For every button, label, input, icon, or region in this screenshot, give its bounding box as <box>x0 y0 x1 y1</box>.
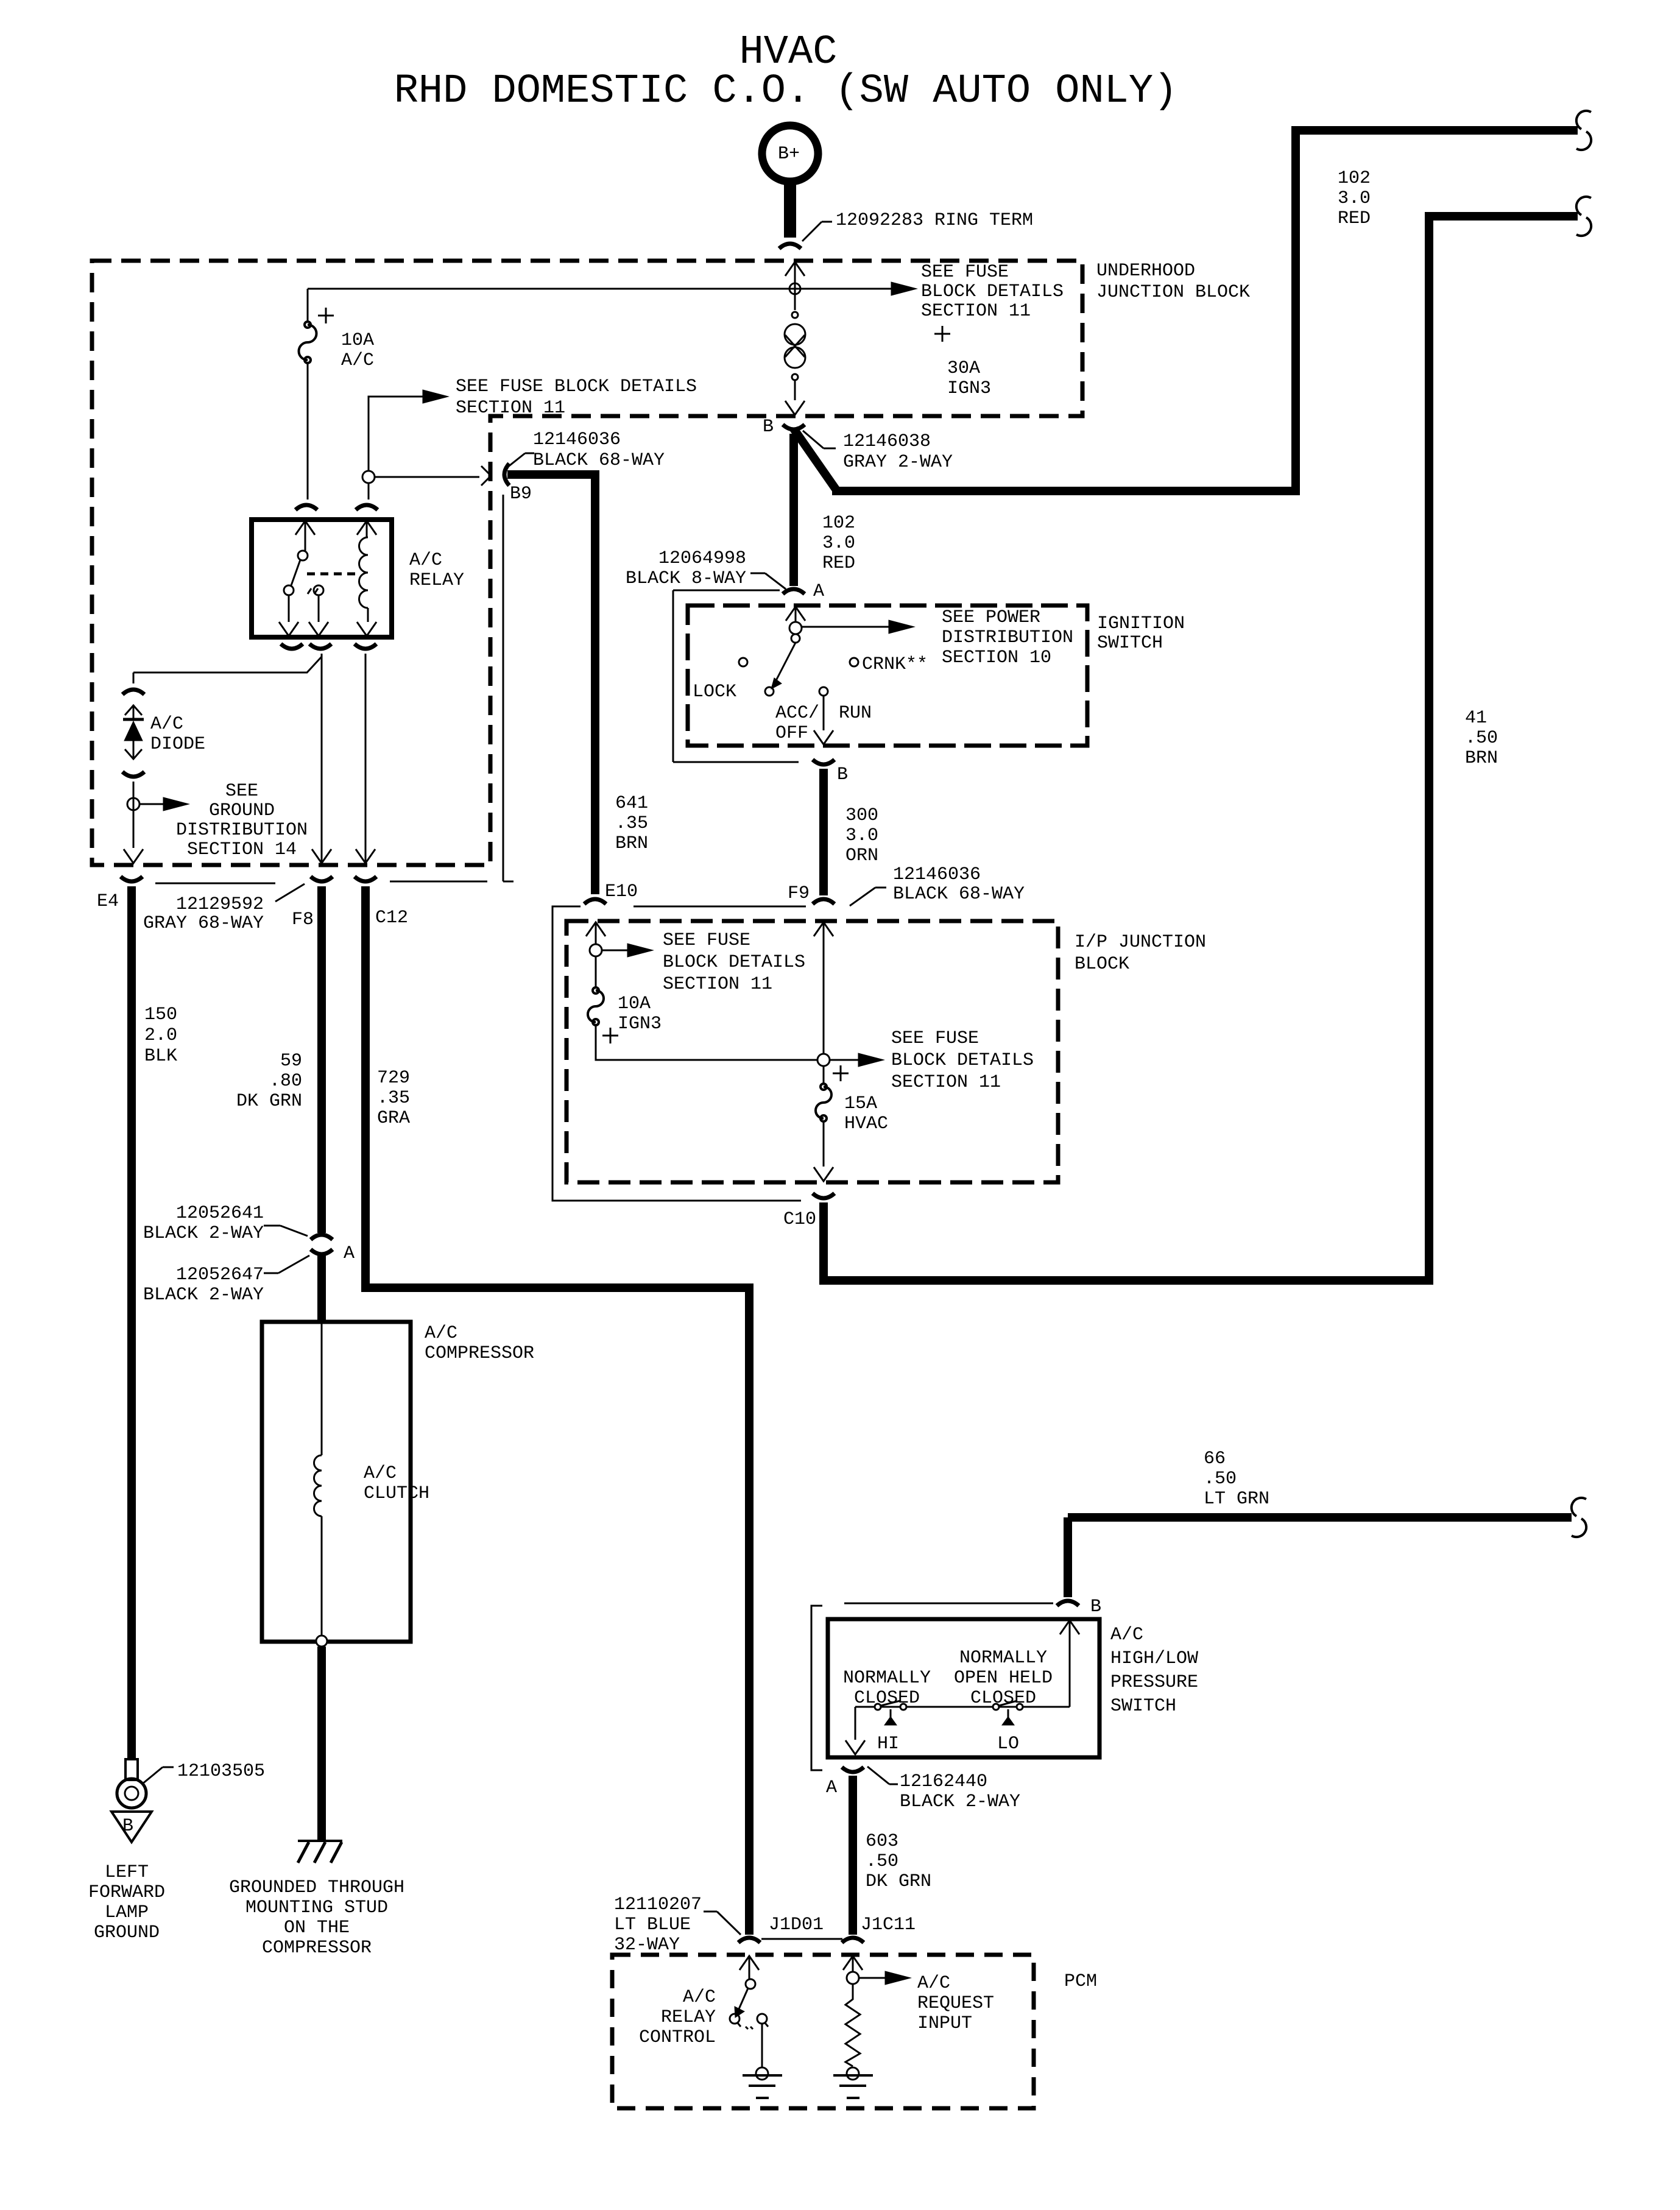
wire fuse 10A to relay pin <box>307 363 309 500</box>
node compressor case <box>316 1636 327 1647</box>
connector C10 arc <box>813 1193 835 1198</box>
svg-text:RHD DOMESTIC C.O. (SW AUTO ONL: RHD DOMESTIC C.O. (SW AUTO ONLY) <box>394 68 1178 115</box>
label 12052647 BLACK 2-WAY <box>143 1255 309 1305</box>
svg-text:LAMP: LAMP <box>105 1902 149 1923</box>
svg-text:12092283 RING TERM: 12092283 RING TERM <box>836 210 1033 231</box>
chassis ground (mounting stud) <box>298 1841 342 1863</box>
svg-text:SECTION 11: SECTION 11 <box>921 301 1031 322</box>
svg-text:HI: HI <box>877 1734 899 1754</box>
label 603 .50 DK GRN <box>866 1831 931 1892</box>
svg-text:ACC/: ACC/ <box>775 703 819 724</box>
svg-text:DK GRN: DK GRN <box>866 1871 931 1892</box>
svg-text:C12: C12 <box>375 908 408 928</box>
bracket 8-way connector <box>673 590 799 762</box>
svg-text:CONTROL: CONTROL <box>639 2027 716 2048</box>
svg-text:A: A <box>826 1778 837 1798</box>
wire junction down to relay pin 2 <box>368 483 370 500</box>
node ground distribution tap <box>127 798 139 810</box>
relay switch pivot <box>298 551 308 560</box>
arrow to ground distribution <box>139 797 189 811</box>
label B (ignition) <box>837 764 848 785</box>
pressure switch pin A lead + arrow <box>845 1707 865 1754</box>
label C10 <box>783 1209 816 1230</box>
relay pin top 1 arrow + lead <box>295 521 315 551</box>
svg-text:REQUEST: REQUEST <box>917 1993 994 2014</box>
svg-text:BLACK 2-WAY: BLACK 2-WAY <box>900 1792 1020 1812</box>
svg-text:SWITCH: SWITCH <box>1097 633 1163 654</box>
svg-text:LT GRN: LT GRN <box>1204 1489 1269 1509</box>
wire 102 RED to right break <box>794 130 1578 491</box>
svg-text:NORMALLY: NORMALLY <box>843 1668 931 1689</box>
svg-text:BLK: BLK <box>144 1046 177 1067</box>
label B (gray 2-way) <box>763 417 774 437</box>
label SEE FUSE BLOCK DETAILS SECTION 11 (left) <box>456 376 697 418</box>
svg-text:12110207: 12110207 <box>614 1894 702 1915</box>
relay pin bottom 2 <box>309 595 328 636</box>
I/P pin F9 arrow + wire <box>814 922 833 1054</box>
svg-text:A/C: A/C <box>364 1463 397 1484</box>
svg-text:12146036: 12146036 <box>893 864 981 885</box>
wire relay coil to C12 <box>365 654 367 864</box>
label SEE POWER DISTRIBUTION SECTION 10 <box>942 607 1073 668</box>
label PCM <box>1064 1971 1097 1992</box>
label 12092283 RING TERM <box>802 210 1033 241</box>
contact LO switch <box>993 1701 1023 1710</box>
earth ground (relay control) <box>743 2075 782 2098</box>
svg-text:PCM: PCM <box>1064 1971 1097 1992</box>
title HVAC <box>394 29 1178 115</box>
fuse 10A IGN3 <box>588 987 604 1025</box>
svg-text:MOUNTING STUD: MOUNTING STUD <box>245 1898 388 1918</box>
connector arc below relay pin (unused) <box>281 644 303 649</box>
wire compressor to chassis ground <box>317 1647 326 1841</box>
wire inside compressor top <box>321 1324 323 1455</box>
wire 59 DK GRN <box>317 886 326 1233</box>
arrow to fuse details 2 <box>830 1053 884 1067</box>
connector J1D01 arc <box>738 1938 760 1943</box>
connector ring terminal arc <box>779 244 801 249</box>
svg-text:ORN: ORN <box>845 846 878 866</box>
relay actuation dashed link <box>307 573 359 576</box>
svg-text:B+: B+ <box>778 144 800 164</box>
label A/C COMPRESSOR <box>425 1323 534 1364</box>
svg-text:3.0: 3.0 <box>1338 188 1371 209</box>
svg-text:I/P JUNCTION: I/P JUNCTION <box>1075 932 1206 953</box>
label 66 .50 LT GRN <box>1204 1449 1269 1509</box>
svg-text:BLOCK DETAILS: BLOCK DETAILS <box>921 281 1064 302</box>
ignition pin A arrow <box>786 607 805 623</box>
label 102 3.0 RED (ignition) <box>822 513 855 574</box>
label A (pressure switch) <box>826 1778 837 1798</box>
svg-text:SEE FUSE: SEE FUSE <box>891 1028 979 1049</box>
pendulum LO <box>1002 1709 1014 1725</box>
node E10 junction <box>590 944 602 956</box>
connector E10 arc <box>584 899 606 904</box>
svg-text:.50: .50 <box>1465 728 1498 749</box>
svg-text:OPEN HELD: OPEN HELD <box>954 1668 1053 1689</box>
svg-text:.35: .35 <box>615 813 648 834</box>
wire connector to compressor <box>317 1255 326 1323</box>
svg-text:30A: 30A <box>947 358 980 379</box>
connector C12 arc <box>355 877 376 881</box>
wire B+ stem <box>784 180 796 238</box>
svg-text:IGN3: IGN3 <box>947 378 991 399</box>
svg-text:BLOCK DETAILS: BLOCK DETAILS <box>891 1050 1034 1071</box>
svg-text:HIGH/LOW: HIGH/LOW <box>1110 1648 1198 1669</box>
label 12146036 BLACK 68-WAY (B9) <box>504 429 665 471</box>
label LEFT FORWARD LAMP GROUND <box>88 1862 165 1943</box>
svg-text:12162440: 12162440 <box>900 1771 987 1792</box>
label 12103505 <box>142 1761 265 1784</box>
label 15A HVAC <box>844 1093 888 1134</box>
svg-text:3.0: 3.0 <box>845 825 878 846</box>
svg-text:12052641: 12052641 <box>176 1203 264 1224</box>
label 12146038 GRAY 2-WAY <box>803 431 953 473</box>
label 10A IGN3 <box>602 994 662 1043</box>
wire inside block from B+ <box>794 261 796 310</box>
labels HI LO <box>877 1734 1019 1754</box>
label UNDERHOOD JUNCTION BLOCK <box>1096 261 1250 303</box>
label E4 <box>97 891 119 912</box>
svg-text:F8: F8 <box>292 909 314 930</box>
wire down to diode connector <box>133 673 135 683</box>
svg-text:NORMALLY: NORMALLY <box>959 1648 1047 1668</box>
svg-text:32-WAY: 32-WAY <box>614 1935 680 1955</box>
svg-text:RED: RED <box>1338 208 1371 229</box>
svg-text:JUNCTION BLOCK: JUNCTION BLOCK <box>1096 282 1250 303</box>
svg-text:A/C: A/C <box>683 1987 716 2008</box>
fuse 10A A/C <box>299 322 317 363</box>
connector arc below relay pin switch <box>309 644 331 649</box>
node junction at B+ bus <box>789 283 800 294</box>
wire branch to fuse-details arrow <box>369 390 448 471</box>
contact LOCK <box>693 658 747 702</box>
svg-text:OFF: OFF <box>775 723 808 744</box>
ring terminal 12103505 <box>117 1759 146 1808</box>
label GROUNDED THROUGH MOUNTING STUD ON THE COMPRESSOR <box>229 1877 404 1958</box>
bracket 32-way connector <box>761 1938 842 1940</box>
connector B arc (ignition) <box>813 760 835 764</box>
svg-text:150: 150 <box>144 1004 177 1025</box>
label 641 .35 BRN <box>615 793 648 854</box>
connector J1C11 arc <box>842 1938 864 1943</box>
svg-text:BLOCK: BLOCK <box>1075 954 1129 975</box>
connector arc diode top <box>122 690 144 694</box>
diode A/C DIODE <box>123 719 144 741</box>
svg-text:E10: E10 <box>605 881 638 902</box>
svg-text:GROUND: GROUND <box>209 800 275 821</box>
wire relay switch to F8 <box>321 654 323 864</box>
svg-text:A: A <box>813 581 824 602</box>
label 729 .35 GRA <box>377 1068 410 1129</box>
svg-text:A/C: A/C <box>409 550 442 571</box>
svg-text:BLACK 68-WAY: BLACK 68-WAY <box>533 450 665 471</box>
PCM box <box>612 1955 1034 2108</box>
break symbol 41 BRN <box>1576 197 1591 236</box>
svg-text:GRAY 2-WAY: GRAY 2-WAY <box>843 452 953 473</box>
svg-text:LT BLUE: LT BLUE <box>614 1915 691 1935</box>
svg-text:GRAY 68-WAY: GRAY 68-WAY <box>143 913 264 934</box>
label C12 <box>375 908 408 928</box>
connector arc 12052647 <box>311 1249 333 1254</box>
svg-text:GROUNDED THROUGH: GROUNDED THROUGH <box>229 1877 404 1898</box>
svg-text:12146036: 12146036 <box>533 429 621 450</box>
svg-text:BLACK 2-WAY: BLACK 2-WAY <box>143 1285 264 1305</box>
wire E10 to fuse 10A IGN3 <box>595 956 597 987</box>
label 12052641 BLACK 2-WAY <box>143 1203 308 1244</box>
label A/C DIODE <box>150 714 205 755</box>
svg-text:GROUND: GROUND <box>94 1922 160 1943</box>
ignition rotor <box>789 622 802 643</box>
svg-text:300: 300 <box>845 805 878 826</box>
svg-text:A/C: A/C <box>150 714 183 735</box>
svg-text:IGNITION: IGNITION <box>1097 613 1185 634</box>
svg-text:729: 729 <box>377 1068 410 1089</box>
ignition pin B lead + arrow <box>814 696 833 744</box>
pin arrow C12 at block edge <box>356 849 375 863</box>
compressor box <box>262 1322 411 1642</box>
label F9 <box>788 883 810 904</box>
coil A/C CLUTCH <box>314 1455 322 1516</box>
svg-text:.80: .80 <box>269 1071 302 1092</box>
svg-text:RELAY: RELAY <box>409 570 464 591</box>
svg-text:COMPRESSOR: COMPRESSOR <box>425 1343 534 1364</box>
svg-text:CRNK**: CRNK** <box>862 654 928 675</box>
node ground (relay control) <box>756 2067 768 2080</box>
svg-text:BRN: BRN <box>615 833 648 854</box>
pin arrow F8 at block edge <box>312 849 331 863</box>
connector arc 12052641 <box>311 1235 333 1240</box>
contact ACC/OFF <box>765 687 819 744</box>
label I/P JUNCTION BLOCK <box>1075 932 1206 975</box>
label E10 <box>605 881 638 902</box>
label SEE GROUND DISTRIBUTION SECTION 14 <box>176 781 308 860</box>
label NORMALLY OPEN HELD CLOSED <box>954 1648 1053 1709</box>
svg-text:BRN: BRN <box>1465 748 1498 769</box>
arrow A/C request input <box>859 1971 911 1985</box>
svg-text:FORWARD: FORWARD <box>88 1882 165 1903</box>
svg-text:102: 102 <box>1338 168 1371 189</box>
wire bus down to fuse 10A A/C <box>307 289 309 323</box>
label F8 <box>292 909 314 930</box>
connector A black 8-way arc <box>783 589 805 594</box>
labels J1D01 J1C11 <box>769 1915 916 1935</box>
svg-text:SECTION 11: SECTION 11 <box>456 398 565 418</box>
svg-text:12103505: 12103505 <box>177 1761 265 1782</box>
svg-text:DK GRN: DK GRN <box>236 1091 302 1112</box>
circuit breaker 30A IGN3 <box>785 312 805 380</box>
svg-text:SEE FUSE: SEE FUSE <box>663 930 750 951</box>
pressure switch pin B lead <box>1060 1620 1079 1707</box>
arrow to fuse details 1 <box>602 944 653 957</box>
label 150 2.0 BLK <box>144 1004 177 1067</box>
wire 603 DK GRN <box>849 1776 857 1935</box>
svg-text:SEE: SEE <box>225 781 258 802</box>
wire fuse to F9 junction <box>596 1025 817 1060</box>
relay switch blade <box>291 560 300 585</box>
svg-text:B: B <box>1090 1597 1101 1617</box>
connector F9 arc <box>813 899 835 904</box>
connector B arc (pressure switch) <box>1057 1601 1079 1606</box>
relay pin bottom 3 (coil) <box>357 608 376 636</box>
svg-text:.50: .50 <box>1204 1469 1237 1489</box>
bracket line 12129592 <box>155 881 487 902</box>
contact RUN <box>819 687 872 724</box>
svg-text:SEE FUSE BLOCK DETAILS: SEE FUSE BLOCK DETAILS <box>456 376 697 397</box>
wire 150 BLK <box>127 886 136 1759</box>
label 12162440 BLACK 2-WAY <box>867 1767 1020 1812</box>
connector arc below relay pin coil <box>355 644 376 649</box>
svg-text:15A: 15A <box>844 1093 877 1114</box>
arrow to power distribution <box>802 620 914 634</box>
svg-text:3.0: 3.0 <box>822 533 855 554</box>
wire 41 BRN <box>824 216 1578 1280</box>
svg-text:102: 102 <box>822 513 855 534</box>
wire junction to fuse 15A <box>823 1066 825 1084</box>
pressure switch box <box>828 1619 1099 1757</box>
resistor A/C request pulldown <box>845 1984 860 2066</box>
node A/C request <box>847 1972 859 1984</box>
wire 102 RED to ignition switch <box>789 434 798 586</box>
PCM pin J1C11 arrow + lead <box>843 1956 863 1972</box>
svg-text:10A: 10A <box>618 994 651 1014</box>
PCM pin J1D01 arrow + lead <box>739 1956 759 1979</box>
svg-text:.50: .50 <box>866 1851 898 1872</box>
underhood junction block outline <box>92 261 1082 865</box>
I/P junction block box <box>566 921 1058 1182</box>
svg-text:BLACK 8-WAY: BLACK 8-WAY <box>626 568 746 589</box>
relay pin top 2 arrow + lead <box>357 521 376 537</box>
svg-text:RED: RED <box>822 553 855 574</box>
svg-text:A/C: A/C <box>425 1323 457 1344</box>
label A (compressor) <box>344 1243 355 1264</box>
svg-text:B9: B9 <box>510 484 532 504</box>
svg-text:2.0: 2.0 <box>144 1025 177 1046</box>
svg-text:LOCK: LOCK <box>693 682 736 702</box>
svg-text:41: 41 <box>1465 708 1487 729</box>
svg-text:603: 603 <box>866 1831 898 1852</box>
svg-text:CLOSED: CLOSED <box>970 1688 1036 1709</box>
label SEE FUSE BLOCK DETAILS SECTION 11 (IP upper) <box>663 930 805 995</box>
label 10A A/C <box>318 308 374 371</box>
svg-text:12146038: 12146038 <box>843 431 931 452</box>
contact HI switch <box>875 1701 906 1710</box>
label A/C CLUTCH <box>364 1463 429 1504</box>
wire 66 LT GRN <box>1068 1517 1572 1597</box>
connector E4 arc <box>121 877 143 881</box>
svg-text:E4: E4 <box>97 891 119 912</box>
label 12110207 LT BLUE 32-WAY <box>614 1894 741 1955</box>
wire 300 ORN <box>819 769 828 895</box>
svg-text:UNDERHOOD: UNDERHOOD <box>1096 261 1195 281</box>
svg-text:.35: .35 <box>377 1088 410 1109</box>
label 12064998 BLACK 8-WAY <box>626 548 786 589</box>
svg-text:CLOSED: CLOSED <box>854 1688 920 1709</box>
svg-text:DISTRIBUTION: DISTRIBUTION <box>176 820 308 841</box>
svg-text:RUN: RUN <box>839 703 872 724</box>
connector B9 arc <box>504 464 509 485</box>
svg-text:66: 66 <box>1204 1449 1226 1469</box>
svg-text:SEE POWER: SEE POWER <box>942 607 1040 628</box>
svg-text:PRESSURE: PRESSURE <box>1110 1672 1198 1693</box>
svg-text:DIODE: DIODE <box>150 734 205 755</box>
connector B gray 2-way arc <box>783 425 805 429</box>
svg-text:INPUT: INPUT <box>917 2013 972 2034</box>
svg-text:COMPRESSOR: COMPRESSOR <box>262 1938 372 1958</box>
label 300 3.0 ORN <box>845 805 878 866</box>
wire breaker to block bottom + pin arrow <box>785 380 805 415</box>
svg-text:641: 641 <box>615 793 648 814</box>
bracket 68-way connector right <box>503 495 514 881</box>
relay control blade <box>735 1988 748 2018</box>
relay control switch pivot <box>746 1979 755 1989</box>
connector A arc (pressure switch) <box>842 1767 864 1772</box>
bracket 68-way I/P connector <box>552 906 806 1201</box>
label 12129592 GRAY 68-WAY <box>143 894 264 934</box>
pressure switch internal bus <box>855 1706 1070 1708</box>
svg-text:SWITCH: SWITCH <box>1110 1696 1176 1717</box>
svg-text:SECTION 11: SECTION 11 <box>663 974 772 995</box>
label 102 3.0 RED (top right) <box>1338 168 1371 229</box>
relay box A/C RELAY <box>252 520 392 637</box>
svg-text:12052647: 12052647 <box>176 1265 264 1285</box>
wire contact to ground <box>761 2024 763 2067</box>
label A/C RELAY CONTROL <box>639 1987 716 2048</box>
wire bus to fuses with arrow <box>308 282 917 295</box>
diode arrow down <box>125 741 142 759</box>
label 59 .80 DK GRN <box>236 1051 302 1112</box>
svg-text:A/C: A/C <box>917 1973 950 1994</box>
connector F8 arc <box>311 877 333 881</box>
svg-text:ON THE: ON THE <box>284 1918 350 1938</box>
wire 729 GRA <box>365 886 749 1935</box>
svg-text:HVAC: HVAC <box>844 1114 888 1134</box>
svg-text:SECTION 10: SECTION 10 <box>942 648 1051 668</box>
bracket 2-way pressure switch <box>811 1603 1053 1770</box>
label B (pressure switch) <box>1090 1597 1101 1617</box>
diode arrow up <box>125 705 142 719</box>
ignition blade to ACC <box>771 643 796 689</box>
earth ground (request) <box>833 2075 873 2098</box>
svg-text:DISTRIBUTION: DISTRIBUTION <box>942 627 1073 648</box>
label SEE FUSE BLOCK DETAILS SECTION 11 (underhood right) <box>921 262 1064 322</box>
label 41 .50 BRN <box>1465 708 1498 769</box>
I/P pin E10 arrow <box>586 922 605 944</box>
svg-text:59: 59 <box>280 1051 302 1071</box>
relay coil <box>359 537 369 608</box>
label A/C RELAY <box>409 550 464 591</box>
svg-text:CLUTCH: CLUTCH <box>364 1483 429 1504</box>
svg-text:LEFT: LEFT <box>105 1862 149 1883</box>
svg-text:B: B <box>837 764 848 785</box>
node F9 junction <box>817 1054 830 1066</box>
svg-text:J1D01: J1D01 <box>769 1915 824 1935</box>
label 30A IGN3 <box>934 326 991 399</box>
label NORMALLY CLOSED <box>843 1668 931 1709</box>
wire arrow into B9 <box>375 466 491 485</box>
svg-text:J1C11: J1C11 <box>861 1915 916 1935</box>
relay pin bottom 1 <box>279 595 298 636</box>
label IGNITION SWITCH <box>1097 613 1185 654</box>
ground triangle B <box>111 1812 152 1842</box>
wire 641 BRN from B9 to E10 <box>507 475 595 894</box>
label SEE FUSE BLOCK DETAILS SECTION 11 (IP lower) <box>833 1028 1034 1093</box>
svg-text:12129592: 12129592 <box>176 894 264 915</box>
break symbol 66 LT GRN <box>1572 1498 1586 1537</box>
svg-text:10A: 10A <box>341 330 374 351</box>
svg-text:BLACK 2-WAY: BLACK 2-WAY <box>143 1223 264 1244</box>
label A/C REQUEST INPUT <box>917 1973 994 2034</box>
